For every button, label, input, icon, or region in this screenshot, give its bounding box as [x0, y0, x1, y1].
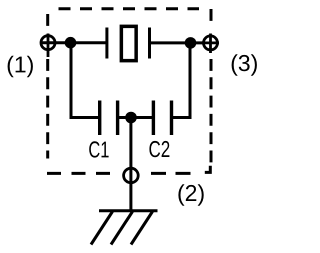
terminal (1): [41, 36, 55, 50]
wire: left node down and over to C1: [71, 43, 99, 118]
wire: C1 to C2 through center node: [118, 116, 154, 119]
terminal (3): [204, 36, 218, 50]
capacitor C2 left plate: [152, 101, 155, 136]
label C2: [149, 141, 169, 157]
label (1): [8, 56, 33, 77]
node: junction left: [65, 37, 77, 49]
node: junction center: [125, 112, 137, 124]
wire: terminal (1) to crystal left plate: [41, 41, 107, 44]
capacitor C1 right plate: [116, 101, 119, 136]
capacitor C2 right plate: [170, 101, 173, 136]
terminal (2): [124, 168, 139, 183]
node: junction right: [185, 37, 197, 49]
dashed enclosure bottom edge: [47, 172, 112, 175]
dashed enclosure left edge: [46, 14, 49, 159]
dashed enclosure right edge: [210, 9, 213, 164]
crystal body: [121, 26, 136, 60]
wire: crystal right plate to terminal (3): [150, 41, 211, 44]
wire: C2 over and up to right node: [172, 43, 191, 118]
label (3): [232, 54, 257, 76]
label C1: [89, 141, 108, 157]
wire: center node down through terminal (2) to ground: [129, 118, 132, 211]
crystal left plate: [105, 28, 108, 59]
crystal right plate: [148, 28, 151, 59]
ground: [91, 211, 158, 245]
dashed enclosure top edge: [59, 7, 200, 10]
capacitor C1 left plate: [98, 101, 101, 136]
label (2): [178, 184, 203, 206]
dashed enclosure bottom-right corner: [205, 166, 211, 173]
